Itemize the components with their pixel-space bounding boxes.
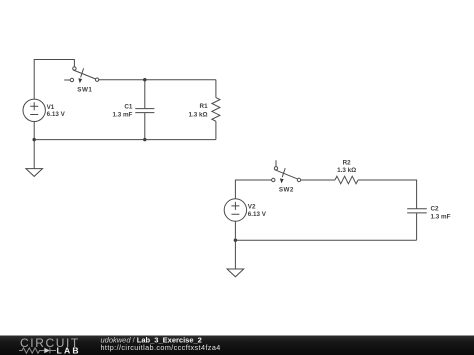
svg-text:1.3 kΩ: 1.3 kΩ — [189, 112, 208, 119]
logo LAB text — [57, 345, 81, 355]
junction node C1 bottom — [143, 138, 146, 141]
svg-text:C1: C1 — [124, 103, 133, 110]
svg-text:6.13 V: 6.13 V — [248, 211, 267, 218]
svg-text:V2: V2 — [248, 204, 256, 211]
switch SW1 — [64, 67, 99, 84]
svg-text:http://circuitlab.com/cccftxst: http://circuitlab.com/cccftxst4fza4 — [101, 343, 221, 352]
wire V2 top to SW2 — [235, 180, 271, 199]
resistor R1 — [212, 80, 220, 140]
switch SW2 — [272, 160, 301, 183]
svg-text:V1: V1 — [47, 104, 55, 111]
resistor R2 — [335, 176, 358, 184]
wire bottom rail circuit 2 — [235, 239, 416, 241]
label C1 value — [112, 103, 132, 118]
junction node V2 bottom rail — [234, 239, 237, 242]
svg-text:SW2: SW2 — [279, 187, 294, 194]
label SW1 — [77, 86, 92, 93]
label V1 value — [47, 104, 66, 118]
svg-text:SW1: SW1 — [77, 86, 92, 93]
wire R2 to C2 top — [358, 180, 417, 209]
footer title line — [101, 336, 202, 345]
wire bottom rail circuit 1 — [34, 139, 216, 141]
label V2 value — [248, 204, 267, 218]
wire V1 top to SW1 common — [34, 60, 74, 100]
capacitor C1 — [135, 80, 154, 140]
ground G2 — [227, 269, 244, 277]
voltage source V1 — [23, 99, 45, 121]
junction node V1 bottom rail — [33, 138, 36, 141]
footer bar — [0, 336, 474, 355]
wire V1 bottom to ground — [33, 122, 35, 169]
voltage source V2 — [224, 199, 246, 221]
ground G1 — [26, 169, 43, 177]
label R1 value — [189, 103, 209, 119]
label R2 value — [337, 160, 356, 175]
svg-text:R2: R2 — [343, 160, 352, 167]
svg-text:C2: C2 — [431, 206, 440, 213]
capacitor C2 — [407, 209, 427, 241]
wire SW1 to C1 to R1 top rail — [99, 79, 216, 81]
label SW2 — [279, 187, 294, 194]
svg-text:1.3 mF: 1.3 mF — [431, 213, 451, 220]
svg-text:R1: R1 — [200, 103, 209, 110]
logo resistor squiggle and diode — [19, 348, 56, 354]
label C2 value — [431, 206, 451, 221]
svg-text:LAB: LAB — [57, 345, 81, 355]
svg-text:1.3 kΩ: 1.3 kΩ — [337, 167, 356, 174]
wire V2 bottom to ground — [234, 221, 236, 269]
svg-text:1.3 mF: 1.3 mF — [112, 111, 132, 118]
svg-text:6.13 V: 6.13 V — [47, 111, 66, 118]
logo CIRCUIT text — [20, 336, 80, 350]
wire SW2 to R2 — [301, 179, 335, 181]
junction node C1 top — [143, 78, 146, 81]
footer url line — [101, 343, 221, 352]
